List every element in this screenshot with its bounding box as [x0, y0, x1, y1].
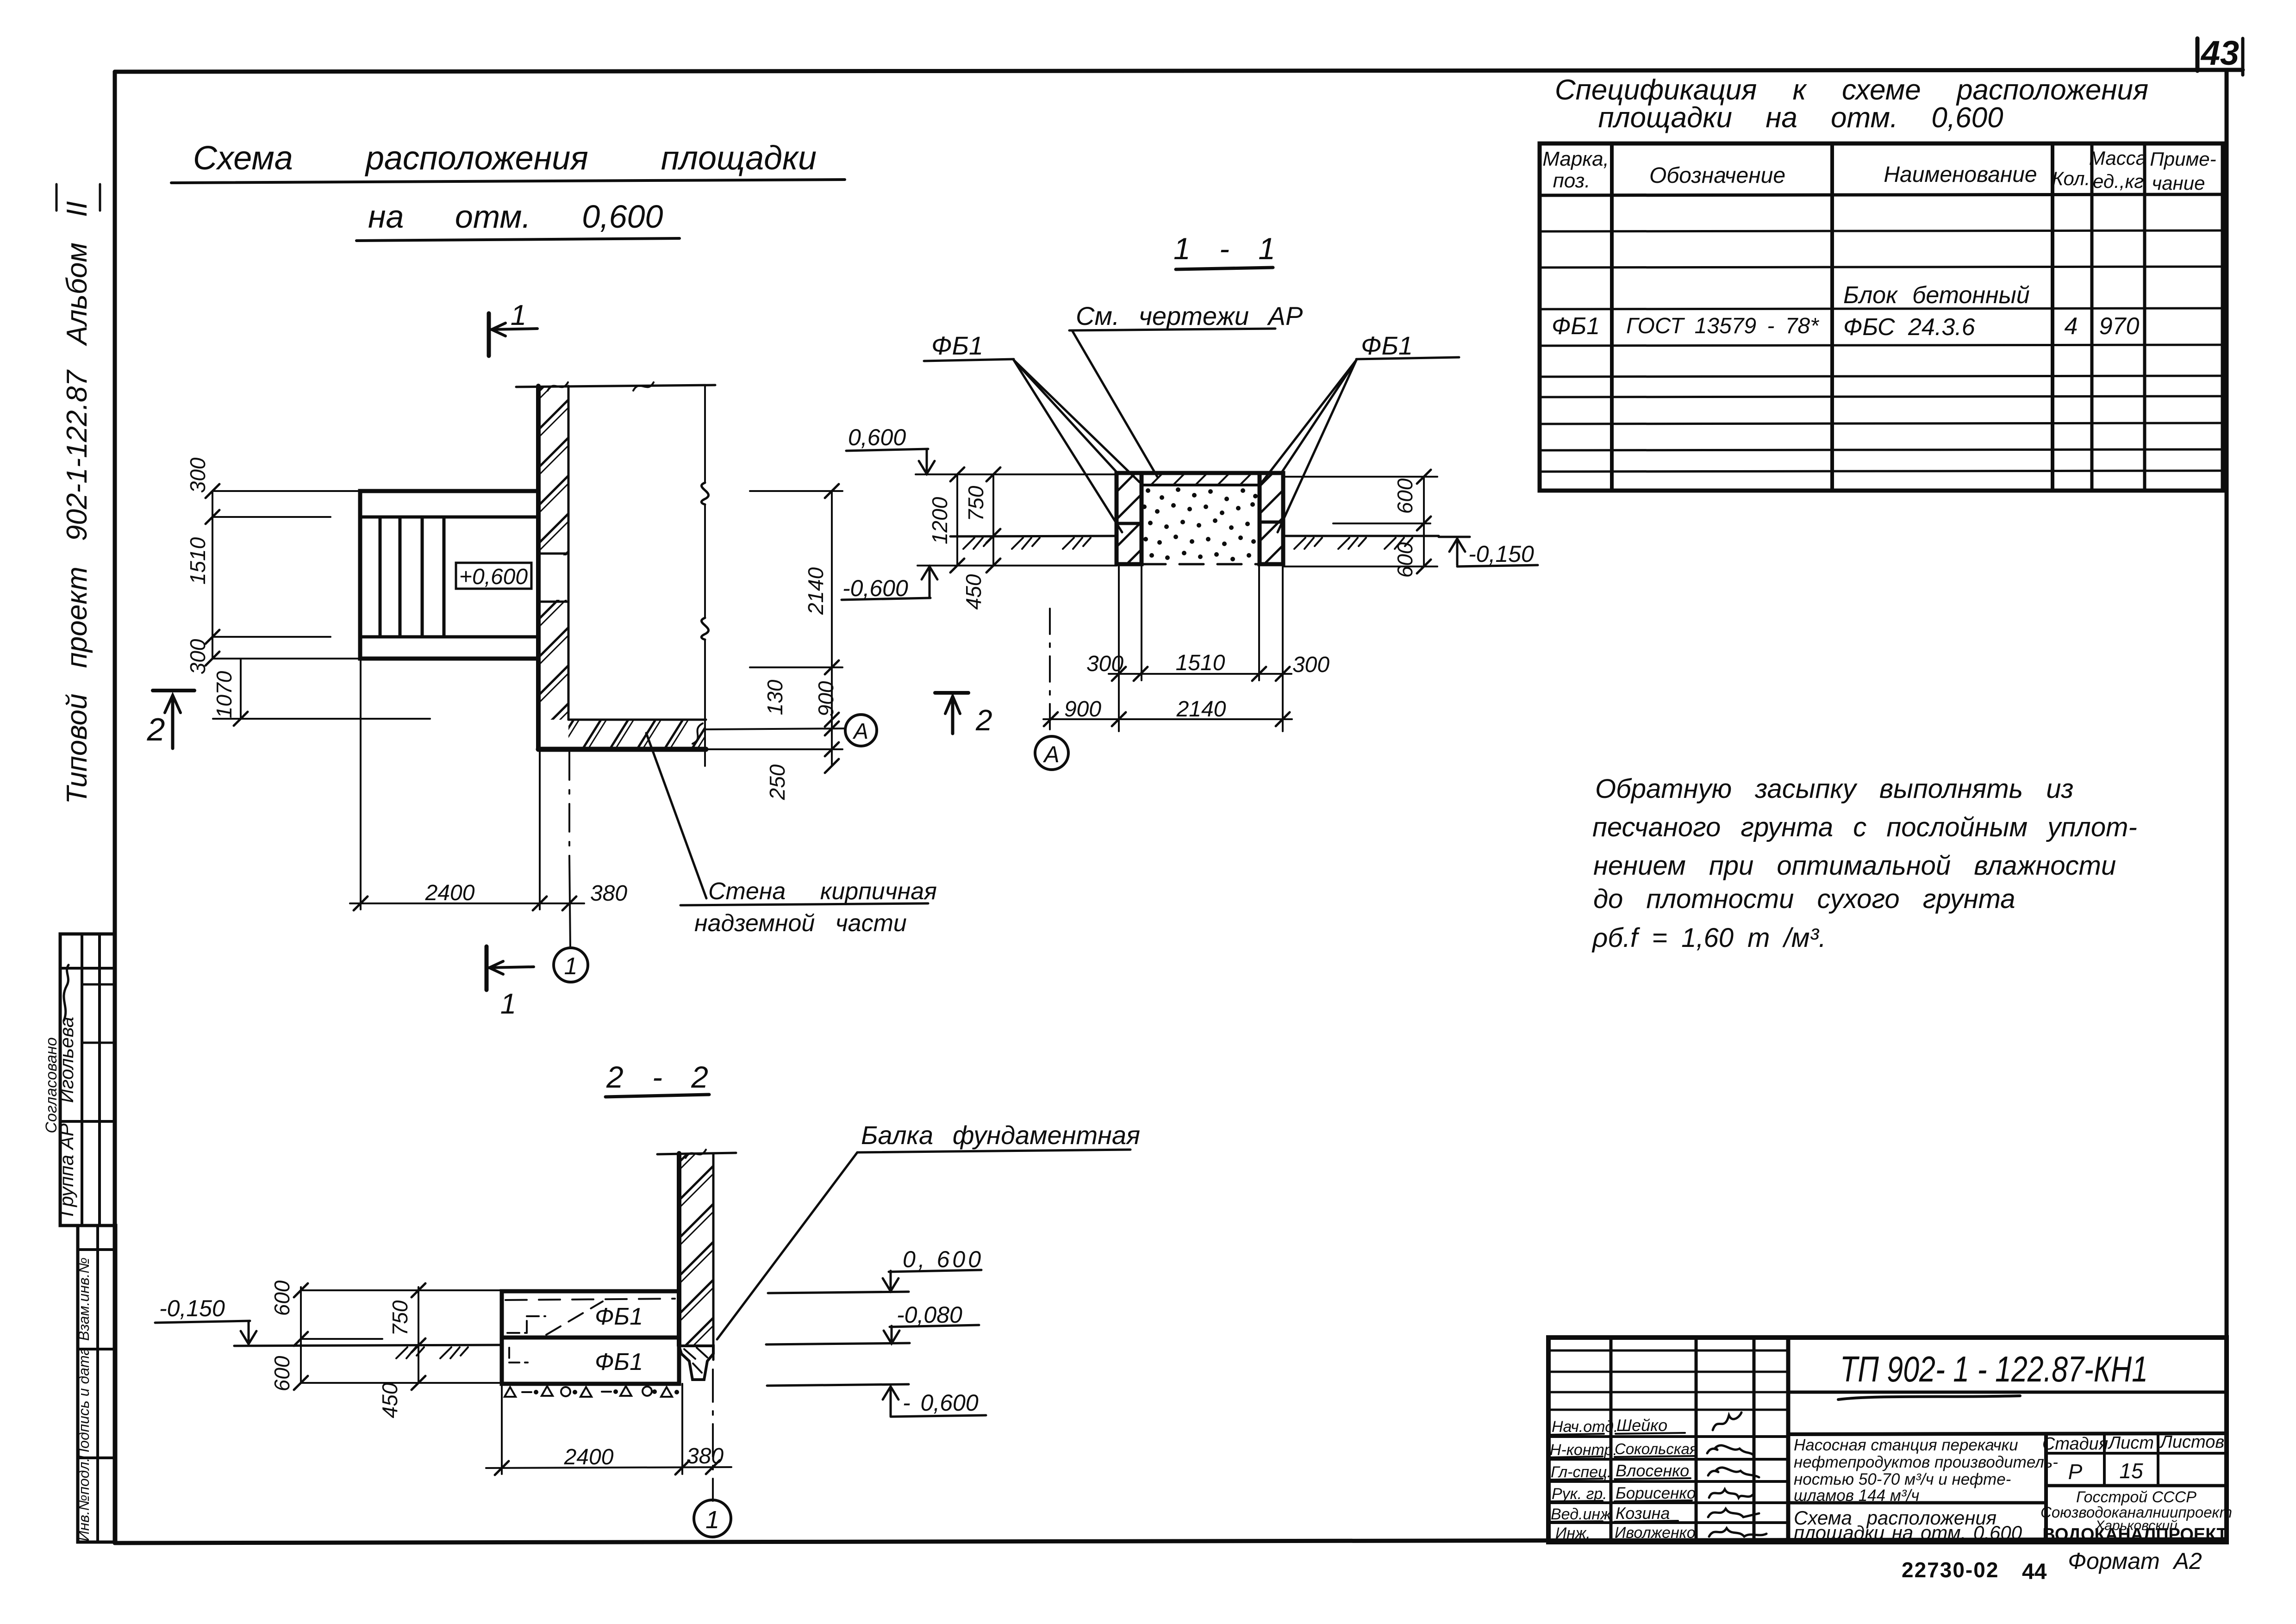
- svg-text:-0,080: -0,080: [897, 1302, 962, 1328]
- svg-text:ρб.f = 1,60 т /м³.: ρб.f = 1,60 т /м³.: [1591, 923, 1826, 953]
- svg-text:Лист: Лист: [2107, 1433, 2154, 1453]
- svg-text:ТП 902- 1 - 122.87-КН1: ТП 902- 1 - 122.87-КН1: [1840, 1349, 2148, 1389]
- svg-text:Нач.отд.: Нач.отд.: [1552, 1418, 1618, 1436]
- svg-text:Обозначение: Обозначение: [1649, 163, 1785, 188]
- svg-text:на отм. 0,600: на отм. 0,600: [368, 199, 663, 235]
- svg-text:ФБ1: ФБ1: [1361, 331, 1413, 360]
- svg-text:1200: 1200: [928, 497, 952, 544]
- svg-text:15: 15: [2119, 1459, 2143, 1483]
- svg-text:2 - 2: 2 - 2: [606, 1060, 708, 1094]
- svg-text:Взам.инв.№: Взам.инв.№: [75, 1257, 92, 1341]
- svg-text:750: 750: [964, 485, 988, 521]
- svg-text:Наименование: Наименование: [1884, 162, 2037, 187]
- svg-text:0,600: 0,600: [848, 424, 906, 450]
- svg-text:Влосенко: Влосенко: [1616, 1461, 1689, 1480]
- svg-text:Шейко: Шейко: [1616, 1416, 1667, 1435]
- svg-text:-0,600: -0,600: [842, 575, 908, 601]
- svg-text:600: 600: [1393, 478, 1417, 514]
- svg-text:чание: чание: [2152, 172, 2205, 194]
- svg-text:1: 1: [705, 1506, 719, 1534]
- svg-text:поз.: поз.: [1553, 169, 1591, 192]
- svg-text:Инв.№подл.: Инв.№подл.: [75, 1458, 92, 1542]
- svg-text:1510: 1510: [186, 537, 210, 585]
- svg-text:А: А: [1042, 741, 1059, 767]
- svg-text:- 0,600: - 0,600: [903, 1390, 979, 1416]
- svg-text:970: 970: [2099, 313, 2140, 340]
- svg-text:1: 1: [564, 953, 578, 980]
- svg-text:2140: 2140: [1176, 697, 1226, 722]
- svg-text:Борисенко: Борисенко: [1616, 1484, 1696, 1502]
- svg-text:Насосная станция перекачки: Насосная станция перекачки: [1794, 1436, 2018, 1454]
- svg-text:Приме-: Приме-: [2150, 148, 2216, 170]
- svg-text:22730-02: 22730-02: [1902, 1558, 1999, 1582]
- svg-text:ед.,кг: ед.,кг: [2093, 170, 2144, 192]
- svg-text:Сокольская: Сокольская: [1615, 1440, 1697, 1457]
- svg-text:Листов: Листов: [2159, 1432, 2224, 1452]
- svg-text:Марка,: Марка,: [1542, 148, 1609, 170]
- svg-text:-0,150: -0,150: [1468, 541, 1534, 567]
- svg-text:Стадия: Стадия: [2042, 1434, 2108, 1454]
- svg-text:250: 250: [765, 764, 789, 800]
- svg-text:песчаного грунта с послойны: песчаного грунта с послойным уплот-: [1592, 812, 2137, 842]
- svg-text:1: 1: [511, 299, 526, 331]
- svg-text:380: 380: [590, 881, 627, 906]
- svg-text:300: 300: [1086, 652, 1123, 676]
- svg-text:2400: 2400: [425, 881, 475, 905]
- svg-text:1070: 1070: [212, 671, 236, 718]
- svg-text:43: 43: [2200, 34, 2239, 72]
- svg-text:450: 450: [378, 1382, 402, 1418]
- svg-text:Группа АР: Группа АР: [56, 1123, 77, 1216]
- svg-text:300: 300: [1292, 653, 1329, 677]
- svg-text:Инж.: Инж.: [1555, 1524, 1591, 1542]
- svg-text:450: 450: [961, 574, 986, 610]
- svg-text:ФБ1: ФБ1: [595, 1303, 643, 1330]
- svg-text:300: 300: [186, 457, 210, 493]
- svg-text:2: 2: [147, 711, 165, 747]
- svg-text:Масса: Масса: [2089, 147, 2146, 169]
- svg-text:-0,150: -0,150: [159, 1295, 225, 1321]
- svg-text:130: 130: [763, 679, 787, 715]
- svg-text:1: 1: [500, 988, 516, 1020]
- svg-text:См. чертежи АР: См. чертежи АР: [1076, 301, 1303, 330]
- svg-text:4: 4: [2065, 313, 2078, 340]
- svg-text:Стена кирпичная: Стена кирпичная: [708, 878, 937, 905]
- svg-text:300: 300: [186, 639, 210, 674]
- svg-text:Обратную засыпку выполнять: Обратную засыпку выполнять из: [1595, 774, 2073, 804]
- svg-text:+0,600: +0,600: [459, 565, 528, 589]
- svg-text:900: 900: [1064, 697, 1101, 722]
- svg-text:2400: 2400: [564, 1445, 614, 1469]
- svg-text:Р: Р: [2068, 1460, 2083, 1484]
- svg-text:площадки на отм. 0,600: площадки на отм. 0,600: [1598, 102, 2003, 134]
- svg-text:Типовой проект 902-1-122.8: Типовой проект 902-1-122.87 Альбом II: [61, 201, 93, 804]
- svg-text:900: 900: [814, 681, 838, 716]
- svg-text:ФБ1: ФБ1: [931, 331, 983, 360]
- svg-text:А: А: [852, 719, 868, 744]
- svg-text:2: 2: [975, 703, 992, 737]
- svg-text:Согласовано: Согласовано: [43, 1037, 60, 1133]
- svg-text:ФБС 24.3.6: ФБС 24.3.6: [1843, 314, 1975, 341]
- svg-text:ВОДОКАНАЛПРОЕКТ: ВОДОКАНАЛПРОЕКТ: [2042, 1525, 2227, 1544]
- svg-text:Блок бетонный: Блок бетонный: [1843, 282, 2030, 309]
- svg-text:0, 600: 0, 600: [903, 1246, 984, 1272]
- svg-text:1510: 1510: [1176, 651, 1225, 675]
- svg-text:до плотности сухого грунта: до плотности сухого грунта: [1593, 884, 2015, 914]
- svg-text:2140: 2140: [804, 567, 828, 615]
- svg-text:ФБ1: ФБ1: [595, 1349, 643, 1375]
- svg-text:Кол.: Кол.: [2052, 168, 2090, 189]
- svg-text:Балка фундаментная: Балка фундаментная: [861, 1120, 1140, 1150]
- svg-text:нением при оптимальной влаж: нением при оптимальной влажности: [1593, 851, 2116, 881]
- svg-text:ностью 50-70 м³/ч и нефте-: ностью 50-70 м³/ч и нефте-: [1794, 1470, 2011, 1488]
- svg-text:Спецификация к схеме распол: Спецификация к схеме расположения: [1555, 74, 2148, 106]
- svg-text:нефтепродуктов производитель-: нефтепродуктов производитель-: [1794, 1453, 2058, 1471]
- svg-text:380: 380: [686, 1444, 724, 1468]
- svg-text:площадки на отм. 0,600: площадки на отм. 0,600: [1794, 1522, 2022, 1543]
- svg-text:ГОСТ 13579 - 78*: ГОСТ 13579 - 78*: [1626, 314, 1819, 338]
- svg-text:750: 750: [388, 1300, 412, 1336]
- svg-text:Схема расположения площадки: Схема расположения площадки: [193, 140, 817, 177]
- svg-text:1 - 1: 1 - 1: [1173, 231, 1275, 266]
- svg-text:ФБ1: ФБ1: [1552, 313, 1600, 340]
- svg-text:Козина: Козина: [1616, 1504, 1670, 1523]
- svg-text:600: 600: [1393, 542, 1417, 578]
- svg-text:44: 44: [2022, 1560, 2047, 1584]
- svg-text:Подпись и дата: Подпись и дата: [75, 1347, 92, 1459]
- svg-text:600: 600: [270, 1280, 294, 1316]
- svg-text:600: 600: [270, 1356, 294, 1391]
- svg-text:надземной части: надземной части: [694, 910, 907, 937]
- svg-text:Формат А2: Формат А2: [2068, 1548, 2202, 1574]
